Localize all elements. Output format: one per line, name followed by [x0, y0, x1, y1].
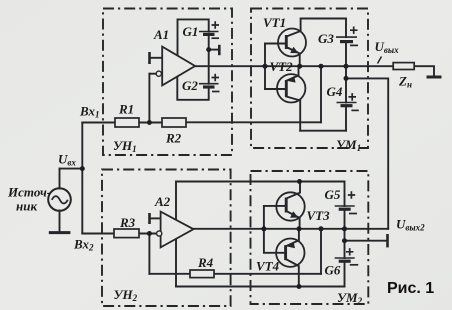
svg-text:VT1: VT1	[263, 15, 286, 30]
svg-text:G4: G4	[327, 84, 343, 99]
svg-text:A2: A2	[154, 194, 171, 209]
svg-text:G3: G3	[318, 31, 334, 46]
svg-text:R1: R1	[118, 102, 134, 117]
svg-text:A1: A1	[153, 27, 169, 42]
svg-text:R2: R2	[165, 131, 182, 146]
svg-text:G6: G6	[325, 263, 341, 278]
svg-text:Источ-: Источ-	[7, 185, 51, 200]
svg-text:Рис. 1: Рис. 1	[387, 280, 434, 297]
svg-text:VT2: VT2	[270, 59, 294, 74]
svg-text:ник: ник	[16, 199, 37, 214]
svg-text:VT4: VT4	[256, 259, 280, 274]
svg-text:VT3: VT3	[307, 208, 331, 223]
svg-text:G2: G2	[182, 78, 198, 93]
svg-text:G5: G5	[325, 187, 341, 202]
svg-text:G1: G1	[183, 24, 199, 39]
svg-text:R3: R3	[119, 215, 136, 230]
svg-text:R4: R4	[197, 255, 214, 270]
